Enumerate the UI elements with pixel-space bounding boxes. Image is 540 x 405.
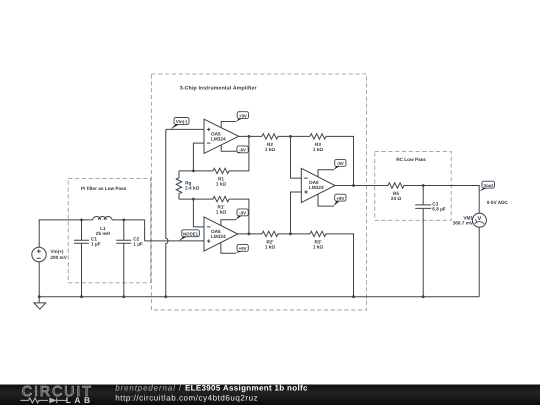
wire VM1 bottom to rail xyxy=(478,227,480,296)
wire Vin(-) net horizontal to OA5 plus xyxy=(166,128,204,130)
svg-text:-9V: -9V xyxy=(239,211,246,216)
box Pi filter as Low Pass xyxy=(68,178,150,282)
wire junction to OA8 minus xyxy=(291,136,302,178)
wire OA5 minus to junction xyxy=(193,143,204,171)
svg-text:2.4 kΩ: 2.4 kΩ xyxy=(185,185,199,191)
wire R1 right up to OA5 output xyxy=(229,136,249,171)
svg-text:1 kΩ: 1 kΩ xyxy=(313,244,324,250)
svg-text:24 Ω: 24 Ω xyxy=(391,196,402,202)
wire OA8 plus to junction below xyxy=(291,192,302,234)
wire R1' right down to OA6 output xyxy=(229,199,249,234)
svg-text:http://circuitlab.com/cy4btd6u: http://circuitlab.com/cy4btd6uq2ruz xyxy=(115,393,258,402)
box RC Low Pass xyxy=(375,152,452,221)
svg-text:Vin(-): Vin(-) xyxy=(176,119,187,124)
resistor R3' xyxy=(310,231,326,236)
wire L1 to corner down to NODE1 row xyxy=(112,220,145,241)
svg-text:6.8 µF: 6.8 µF xyxy=(432,206,446,212)
flag +9V OA8 xyxy=(335,194,346,201)
wire source bottom xyxy=(38,262,40,297)
op-amp OA8 xyxy=(301,168,335,202)
capacitor C1 xyxy=(74,220,89,297)
op-amp OA8 power stubs xyxy=(318,170,334,206)
svg-text:+9V: +9V xyxy=(239,246,247,251)
svg-text:+9V: +9V xyxy=(336,196,344,201)
flag -9V OA6 xyxy=(237,209,248,216)
wire ground rail xyxy=(39,296,479,298)
flag NODE1 xyxy=(182,230,200,237)
svg-text:1 kΩ: 1 kΩ xyxy=(265,244,276,250)
wire Vin(-) net vertical with hop xyxy=(166,129,168,296)
op-amp OA5 power stubs xyxy=(221,122,236,152)
source Vin(+) xyxy=(32,247,46,261)
svg-text:1 kΩ: 1 kΩ xyxy=(216,181,227,187)
resistor Rg xyxy=(176,171,181,199)
resistor R5 xyxy=(388,183,404,188)
flag Vout xyxy=(482,181,495,188)
svg-text:LAB: LAB xyxy=(66,395,94,405)
svg-text:Pi filter as Low Pass: Pi filter as Low Pass xyxy=(81,186,126,192)
svg-text:NODE1: NODE1 xyxy=(183,231,198,236)
wire R2 to R3 xyxy=(278,135,310,137)
svg-text:1 kΩ: 1 kΩ xyxy=(216,209,227,215)
svg-text:LM324: LM324 xyxy=(211,234,226,240)
flags xyxy=(170,112,494,254)
svg-text:1 µF: 1 µF xyxy=(133,241,143,247)
all small texts (scaled 0.5 to avoid min-font clamp) xyxy=(50,85,508,260)
wire OA5 output row xyxy=(239,135,262,137)
svg-text:-9V: -9V xyxy=(239,148,246,153)
svg-text:1 kΩ: 1 kΩ xyxy=(265,147,276,153)
svg-text:1 kΩ: 1 kΩ xyxy=(313,147,324,153)
op-amp OA6 xyxy=(204,217,238,251)
capacitor C2 xyxy=(116,220,131,297)
wire source top to L1 xyxy=(39,220,92,247)
flag texts xyxy=(176,113,493,251)
flag +9V OA5 xyxy=(237,112,248,119)
wire R5 to Vout corner xyxy=(404,186,479,214)
capacitor C3 xyxy=(415,186,431,297)
svg-text:1 µF: 1 µF xyxy=(91,241,101,247)
svg-text:V: V xyxy=(478,216,482,222)
flag Vin(-) xyxy=(174,118,189,125)
svg-text:LM324: LM324 xyxy=(211,136,226,142)
resistor R2' xyxy=(262,231,278,236)
voltmeter VM1 xyxy=(472,213,486,227)
wire NODE1 row to OA6 plus input xyxy=(145,240,204,242)
svg-text:Vout: Vout xyxy=(483,183,492,188)
flag +9V OA6 xyxy=(237,244,248,251)
svg-text:366.7 mV: 366.7 mV xyxy=(453,220,474,226)
ground xyxy=(34,297,46,310)
svg-text:LM324: LM324 xyxy=(309,185,324,191)
wire R2' to R3' xyxy=(278,233,310,235)
inductor L1 xyxy=(93,217,112,220)
op-amp OA5 xyxy=(204,119,239,153)
resistor R1 xyxy=(213,168,229,173)
wire OA6 minus to junction xyxy=(193,199,204,227)
resistor R1' xyxy=(213,196,229,201)
svg-text:brentpedernal / ELE3905 Assign: brentpedernal / ELE3905 Assignment 1b no… xyxy=(115,384,308,393)
svg-text:Vin(+): Vin(+) xyxy=(50,249,63,255)
resistor R2 xyxy=(262,134,278,139)
flag -9V OA8 xyxy=(335,159,346,166)
wire R1' row left xyxy=(179,198,213,200)
svg-text:0-5V ADC: 0-5V ADC xyxy=(487,200,508,206)
op-amp OA6 power stubs xyxy=(221,220,236,254)
wire OA8 output to R5 xyxy=(335,185,388,187)
svg-text:200 mV: 200 mV xyxy=(50,255,67,261)
wire R1 row left xyxy=(179,170,213,172)
svg-text:+9V: +9V xyxy=(239,113,247,118)
flag -9V OA5 xyxy=(237,146,248,153)
wire R3 right down to output node xyxy=(326,136,354,185)
svg-text:RC Low Pass: RC Low Pass xyxy=(396,157,426,163)
overlapping dashed edges of pi box and 3-chip box xyxy=(150,178,152,282)
resistor R3 xyxy=(310,134,326,139)
svg-text:3-Chip Instrumental Amplifier: 3-Chip Instrumental Amplifier xyxy=(180,85,257,91)
svg-text:25 mH: 25 mH xyxy=(96,231,110,237)
wire R3' right down to ground rail xyxy=(326,234,354,297)
svg-text:-9V: -9V xyxy=(337,161,344,166)
box 3-Chip Instrumental Amplifier xyxy=(151,74,366,310)
wire OA6 output row xyxy=(238,233,262,235)
logo squiggle xyxy=(20,398,66,404)
